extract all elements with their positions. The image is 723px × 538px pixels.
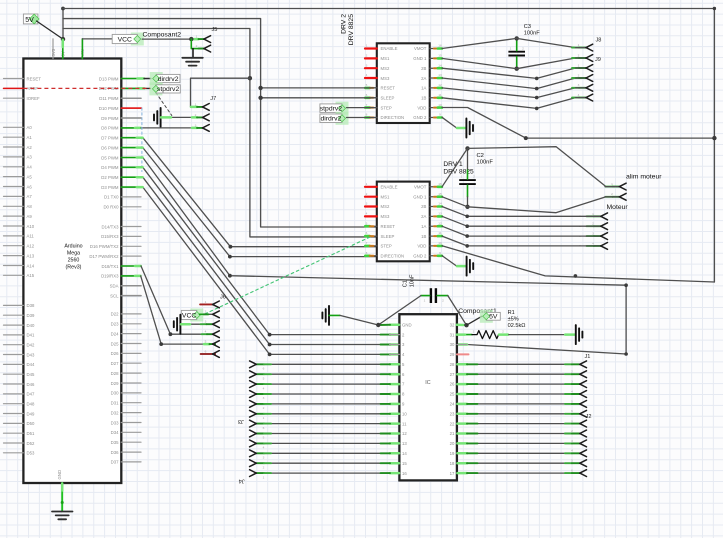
svg-text:SLEEP: SLEEP (381, 96, 395, 101)
svg-text:MS1: MS1 (381, 56, 390, 61)
svg-text:J3: J3 (238, 418, 244, 424)
svg-text:D30: D30 (111, 391, 119, 396)
svg-text:6: 6 (205, 349, 207, 353)
svg-text:10: 10 (438, 241, 442, 245)
svg-text:10nF: 10nF (410, 274, 416, 287)
svg-text:1: 1 (578, 63, 580, 67)
svg-text:13: 13 (438, 212, 442, 216)
label 5V (Composant1) (458, 308, 500, 325)
svg-text:GND: GND (402, 322, 412, 327)
svg-text:A12: A12 (27, 244, 35, 249)
svg-text:22: 22 (450, 421, 455, 426)
svg-text:A9: A9 (27, 214, 33, 219)
svg-text:J8: J8 (596, 38, 602, 44)
svg-text:15: 15 (402, 461, 407, 466)
svg-text:SDA: SDA (110, 284, 119, 289)
wire D19 to J6 pin5 (121, 276, 215, 344)
wire J3 pin to IC pin9 (256, 403, 399, 405)
wire rail A (5V to right edge) (63, 9, 714, 283)
svg-text:D53: D53 (27, 451, 35, 456)
svg-text:D18/TX1: D18/TX1 (102, 264, 120, 269)
wire IC pin23 to J1 (457, 413, 579, 415)
wire VMOT1 to C2/alim (442, 147, 619, 187)
svg-text:D48: D48 (27, 402, 35, 407)
svg-text:2B: 2B (421, 66, 426, 71)
svg-text:5: 5 (366, 83, 368, 87)
wire J3 pin to IC pin5 (256, 363, 399, 365)
svg-text:STEP: STEP (381, 244, 392, 249)
connector Moteur (592, 204, 628, 249)
wire D4 to IC pin2 (121, 167, 399, 334)
node VDD1 mid (574, 274, 578, 278)
connector J8/J9 header arrows (578, 38, 602, 102)
wire D18 to J6 pin4 (121, 266, 212, 334)
svg-text:dirdrv2: dirdrv2 (321, 116, 342, 123)
wire VIN to VCC label (82, 39, 112, 59)
connector J6 (205, 294, 226, 357)
svg-text:3: 3 (205, 320, 207, 324)
svg-text:D45: D45 (27, 372, 35, 377)
node rail B sleep (258, 96, 262, 100)
wire J3 pin to IC pin7 (256, 383, 399, 385)
svg-text:2: 2 (592, 222, 594, 226)
svg-text:D29: D29 (111, 381, 119, 386)
op-amp U4 IC body+pins (390, 314, 468, 480)
svg-text:5: 5 (366, 221, 368, 225)
svg-text:1: 1 (611, 182, 613, 186)
svg-text:5: 5 (205, 340, 207, 344)
svg-text:3: 3 (263, 396, 265, 400)
wire GND1-1 to C2/alim (442, 197, 619, 213)
capacitor C3 100nF (508, 24, 540, 69)
svg-text:D8 PWM: D8 PWM (101, 126, 119, 131)
wire rail B (to DRV RESET) (63, 19, 377, 227)
svg-text:DRV 8825: DRV 8825 (348, 14, 355, 45)
svg-text:D9 PWM: D9 PWM (101, 116, 119, 121)
wire GND2-1 to ground G5 (442, 256, 466, 267)
svg-text:D0 RX0: D0 RX0 (103, 205, 119, 210)
svg-text:5: 5 (263, 376, 265, 380)
svg-text:1: 1 (473, 329, 475, 333)
wire IC pin28 to J1 (457, 363, 579, 365)
wire DRV2 1B to header (442, 98, 586, 109)
svg-text:6: 6 (571, 409, 573, 413)
wire DRV2 2B to header (442, 68, 586, 78)
svg-text:J5: J5 (212, 27, 218, 33)
svg-text:6: 6 (571, 469, 573, 473)
wire J3 pin to IC pin6 (256, 373, 399, 375)
svg-text:30: 30 (450, 342, 455, 347)
ratsnest stpdrv2 to J7 wire (156, 93, 172, 116)
label DRV 2 / DRV 8825 (rotated) (341, 14, 356, 45)
wire DRV1 2A to Moteur (442, 216, 601, 226)
svg-text:MS1: MS1 (381, 194, 390, 199)
power label 5V (top left) (23, 14, 63, 39)
svg-text:GND 2: GND 2 (413, 253, 427, 258)
svg-text:D40: D40 (27, 323, 35, 328)
svg-text:SCL: SCL (110, 293, 119, 298)
svg-text:1: 1 (510, 47, 512, 51)
svg-text:A10: A10 (27, 224, 35, 229)
svg-text:Mega: Mega (67, 251, 80, 257)
svg-text:VMOT: VMOT (414, 46, 427, 51)
wire rail C (to DRV SLEEP) (63, 29, 377, 237)
node C2 top (465, 146, 469, 150)
wire IC pin29 red stub (457, 353, 469, 355)
node D3 elbow (268, 353, 272, 357)
wire IC pin17 to J2 (457, 472, 579, 474)
wire GND1-2 to J9 (442, 58, 586, 69)
node bend 2 (535, 87, 539, 91)
svg-text:D23: D23 (111, 322, 119, 327)
svg-text:D44: D44 (27, 362, 35, 367)
node moteur bend 3 (465, 234, 469, 238)
svg-text:1: 1 (205, 300, 207, 304)
svg-text:12: 12 (402, 431, 407, 436)
svg-text:MS2: MS2 (381, 66, 390, 71)
svg-text:DIRECTION: DIRECTION (381, 253, 405, 258)
wire GND2-2 to ground (442, 117, 466, 128)
svg-text:A14: A14 (27, 263, 35, 268)
svg-text:A11: A11 (27, 234, 35, 239)
svg-text:J1: J1 (585, 354, 591, 360)
svg-text:D39: D39 (27, 313, 35, 318)
svg-text:RESET: RESET (381, 224, 396, 229)
svg-text:6: 6 (366, 93, 368, 97)
wire J4 pin to IC pin15 (256, 462, 399, 464)
svg-text:18: 18 (450, 461, 455, 466)
wire DRV2 2A to header (442, 78, 586, 89)
wire SCL stub (121, 295, 141, 297)
svg-text:IC: IC (425, 380, 430, 386)
ground G2 (J7) (154, 108, 161, 127)
node moteur bend 2 (465, 224, 469, 228)
svg-text:J7: J7 (210, 96, 216, 102)
svg-text:3: 3 (366, 202, 368, 206)
svg-text:2A: 2A (421, 214, 426, 219)
svg-text:5V: 5V (25, 17, 34, 24)
svg-text:D5 PWM: D5 PWM (101, 155, 119, 160)
svg-text:D24: D24 (111, 331, 119, 336)
wire D12 to stpdrv2 (121, 87, 150, 89)
svg-text:A0: A0 (27, 125, 33, 130)
svg-text:C2: C2 (477, 153, 484, 159)
wire VCC to J5 pin1 (142, 38, 204, 40)
svg-text:2: 2 (611, 192, 613, 196)
svg-text:2: 2 (442, 299, 444, 303)
svg-text:3: 3 (263, 456, 265, 460)
ratsnest blue D10-D4 (141, 108, 143, 171)
svg-text:D3 PWM: D3 PWM (101, 185, 119, 190)
svg-text:1: 1 (366, 182, 368, 186)
svg-text:5: 5 (571, 399, 573, 403)
svg-text:2: 2 (578, 53, 580, 57)
node VDD2 rail (524, 136, 717, 140)
node D7 elbow (229, 245, 233, 249)
svg-text:14: 14 (402, 451, 407, 456)
svg-text:D35: D35 (111, 440, 119, 445)
wire RESET2 from rail B (261, 87, 377, 89)
node rail B reset (258, 86, 262, 90)
node moteur bend 4 (465, 244, 469, 248)
svg-text:4: 4 (571, 389, 573, 393)
wire IC pin25 to J1 (457, 393, 579, 395)
svg-text:2: 2 (502, 329, 504, 333)
svg-text:D11 PWM: D11 PWM (99, 96, 119, 101)
svg-text:A6: A6 (27, 184, 33, 189)
node moteur bend 1 (465, 215, 469, 219)
svg-text:VCC: VCC (118, 36, 132, 43)
svg-text:16: 16 (438, 182, 442, 186)
svg-text:D42: D42 (27, 343, 35, 348)
svg-text:D49: D49 (27, 411, 35, 416)
svg-text:stpdrv2: stpdrv2 (157, 86, 180, 93)
svg-text:2: 2 (263, 465, 265, 469)
svg-text:D4 PWM: D4 PWM (101, 165, 119, 170)
svg-text:16: 16 (438, 44, 442, 48)
svg-text:1: 1 (461, 175, 463, 179)
svg-text:dirdrv2: dirdrv2 (158, 76, 179, 83)
svg-text:A8: A8 (27, 204, 33, 209)
svg-text:13: 13 (402, 441, 407, 446)
svg-text:D46: D46 (27, 382, 35, 387)
svg-text:MS3: MS3 (381, 214, 390, 219)
svg-text:21: 21 (450, 431, 455, 436)
svg-text:11: 11 (438, 93, 441, 97)
transistor driver U3 DRV 8825 (DRV 1) body+pins (365, 182, 442, 262)
svg-text:17: 17 (450, 471, 455, 476)
wire ground to J7 pin2 (161, 116, 203, 118)
svg-text:D36: D36 (111, 450, 119, 455)
svg-text:D27: D27 (111, 361, 119, 366)
wire D8 to J7 pin3 (121, 127, 202, 129)
svg-text:A5: A5 (27, 174, 33, 179)
wire IC pin20 to J2 (457, 442, 579, 444)
svg-text:D52: D52 (27, 441, 35, 446)
svg-text:GND 1: GND 1 (413, 56, 427, 61)
svg-text:VDD: VDD (417, 244, 426, 249)
Arduino right pins (D13..D0, D14-D19, SDA/SCL, D22-D37) (89, 76, 141, 464)
svg-text:D51: D51 (27, 431, 35, 436)
label stpdrv2 (at D12) (149, 82, 180, 95)
svg-text:D13 PWM: D13 PWM (99, 76, 119, 81)
svg-text:D28: D28 (111, 371, 119, 376)
ground G6 (R1) (576, 325, 583, 344)
wire rail C to J7 pin1 (191, 78, 250, 107)
label DRV 1 / DRV 8825 (443, 161, 474, 176)
svg-text:SLEEP: SLEEP (381, 234, 395, 239)
svg-text:D41: D41 (27, 333, 35, 338)
op-amp U1 Arduino Mega 2560 (Rev3) body (23, 59, 121, 484)
svg-text:100nF: 100nF (477, 159, 494, 165)
svg-text:1: 1 (263, 416, 265, 420)
svg-text:4: 4 (592, 241, 594, 245)
wire DRV1 1A to Moteur (442, 226, 601, 236)
svg-text:J9: J9 (595, 57, 601, 63)
svg-text:DIRECTION: DIRECTION (381, 115, 405, 120)
svg-text:23: 23 (450, 411, 455, 416)
svg-text:1: 1 (196, 35, 198, 39)
svg-text:4: 4 (571, 449, 573, 453)
svg-text:D19/RX3: D19/RX3 (101, 274, 119, 279)
svg-text:1: 1 (571, 419, 573, 423)
label dirdrv2 (at D13) (150, 72, 180, 85)
svg-text:1B: 1B (421, 96, 426, 101)
svg-text:alim moteur: alim moteur (626, 174, 662, 181)
svg-text:3: 3 (592, 232, 594, 236)
ground G5 (DRV1 GND2) (467, 257, 474, 276)
svg-text:8: 8 (366, 251, 368, 255)
wire J4 pin to IC pin12 (256, 433, 399, 435)
connector J3/J4 (mirrored) (238, 361, 265, 484)
wire J3 pin to IC pin8 (256, 393, 399, 395)
node 5V rail junction (61, 7, 65, 42)
node D4 elbow (268, 333, 272, 337)
node D6 elbow (228, 255, 232, 259)
svg-text:4: 4 (578, 93, 580, 97)
svg-text:±5%: ±5% (508, 316, 519, 322)
wire D2 to IC pin3 (121, 177, 399, 344)
svg-text:19: 19 (450, 451, 455, 456)
svg-text:1: 1 (366, 44, 368, 48)
svg-text:D26: D26 (111, 351, 119, 356)
svg-text:15: 15 (438, 192, 442, 196)
svg-text:D16 PWM/TX2: D16 PWM/TX2 (90, 244, 119, 249)
svg-text:20: 20 (450, 441, 455, 446)
svg-text:5: 5 (263, 436, 265, 440)
wire C1 pin1 to GND node (378, 296, 421, 325)
svg-text:VCC: VCC (182, 312, 196, 319)
svg-text:32: 32 (450, 322, 455, 327)
svg-text:D31: D31 (111, 401, 119, 406)
wire D5 to IC pin30 (long route) (121, 158, 626, 355)
svg-text:12: 12 (438, 83, 442, 87)
ground G1 (below J5) (182, 49, 203, 66)
wire IC pin21 to J2 (457, 433, 579, 435)
ground G4 (IC GND) (322, 306, 329, 325)
svg-text:26: 26 (450, 382, 455, 387)
wire VDD2 to right rail (442, 108, 714, 139)
svg-text:1: 1 (571, 360, 573, 364)
resistor R1 02.5k (457, 310, 575, 339)
svg-text:8: 8 (366, 113, 368, 117)
svg-text:13: 13 (438, 73, 442, 77)
svg-text:A3: A3 (27, 155, 33, 160)
svg-text:3V3: 3V3 (51, 48, 56, 56)
svg-text:1A: 1A (421, 224, 426, 229)
AREF to D12 red dashed line (23, 87, 150, 89)
svg-text:2: 2 (196, 44, 198, 48)
svg-text:STEP: STEP (381, 105, 392, 110)
svg-text:A1: A1 (27, 135, 33, 140)
svg-text:3: 3 (571, 439, 573, 443)
svg-text:2A: 2A (421, 76, 426, 81)
svg-text:GND 2: GND 2 (413, 115, 427, 120)
transistor driver U2 DRV 8825 (DRV 2) body+pins (365, 43, 442, 123)
wire J5 pin2 elbow (191, 39, 204, 49)
wire D9 stub (121, 117, 141, 119)
svg-text:A15: A15 (27, 273, 35, 278)
node C3 top (515, 36, 519, 40)
wire VDD1 to rail A (442, 246, 714, 282)
svg-text:2: 2 (473, 175, 475, 179)
node D19 elbow (159, 342, 163, 346)
svg-text:3: 3 (366, 63, 368, 67)
svg-text:1: 1 (424, 299, 426, 303)
svg-text:2: 2 (522, 47, 524, 51)
svg-text:4: 4 (263, 386, 265, 390)
svg-text:2: 2 (263, 406, 265, 410)
wire IC pin18 to J2 (457, 462, 579, 464)
svg-text:J6: J6 (220, 294, 226, 300)
svg-text:DRV 1: DRV 1 (443, 161, 463, 168)
svg-text:D2 PWM: D2 PWM (101, 175, 119, 180)
connector J1/J2 (571, 354, 591, 477)
svg-text:2B: 2B (421, 204, 426, 209)
svg-text:IOREF: IOREF (27, 96, 41, 101)
svg-text:10: 10 (438, 103, 442, 107)
svg-text:DRV 2: DRV 2 (341, 14, 348, 34)
wire J6 pin6 red stub (201, 353, 216, 355)
svg-text:2: 2 (195, 113, 197, 117)
svg-text:6: 6 (263, 426, 265, 430)
svg-text:D10 PWM: D10 PWM (99, 106, 119, 111)
svg-text:D34: D34 (111, 430, 119, 435)
wire J3 pin to IC pin10 (256, 413, 399, 415)
node J5 junction (189, 37, 193, 41)
svg-text:11: 11 (438, 231, 441, 235)
svg-text:1: 1 (578, 43, 580, 47)
svg-text:12: 12 (438, 221, 442, 225)
wire J4 pin to IC pin13 (256, 442, 399, 444)
svg-text:1: 1 (195, 102, 197, 106)
wire VCC2 to J6 pin2 (200, 313, 213, 315)
Arduino top pins 3V3/5V/VIN and bottom GND pin (51, 39, 85, 506)
svg-text:DRV 8825: DRV 8825 (443, 169, 474, 176)
svg-text:31: 31 (450, 332, 455, 337)
svg-text:D25: D25 (111, 341, 119, 346)
svg-text:4: 4 (205, 330, 207, 334)
svg-text:C3: C3 (524, 24, 531, 30)
svg-text:D50: D50 (27, 421, 35, 426)
svg-text:C1: C1 (403, 280, 409, 287)
svg-text:D1 TX0: D1 TX0 (104, 195, 119, 200)
svg-text:D32: D32 (111, 410, 119, 415)
node bend 3 (535, 96, 539, 100)
svg-text:2560: 2560 (68, 258, 80, 264)
svg-text:7: 7 (366, 103, 368, 107)
svg-text:A7: A7 (27, 194, 33, 199)
wire 5V vertical to top rails (62, 9, 64, 40)
node bend 4 (535, 107, 539, 111)
node C2 bottom (465, 205, 469, 209)
svg-text:6: 6 (366, 231, 368, 235)
svg-text:Moteur: Moteur (607, 204, 629, 211)
svg-text:24: 24 (450, 402, 455, 407)
wire IC pin19 to J2 (457, 452, 579, 454)
wire J6 pin1 red stub (200, 303, 213, 305)
svg-text:ENABLE: ENABLE (381, 185, 398, 190)
wire DRV2 1A to header (442, 88, 586, 98)
wire J4 pin to IC pin14 (256, 452, 399, 454)
svg-text:3: 3 (195, 123, 197, 127)
svg-text:Arduino: Arduino (64, 244, 82, 250)
svg-text:4: 4 (366, 73, 368, 77)
wire IC pin22 to J2 (457, 423, 579, 425)
wire J4 pin to IC pin16 (256, 472, 399, 474)
svg-text:RESET: RESET (27, 76, 42, 81)
svg-text:GND: GND (57, 470, 62, 480)
